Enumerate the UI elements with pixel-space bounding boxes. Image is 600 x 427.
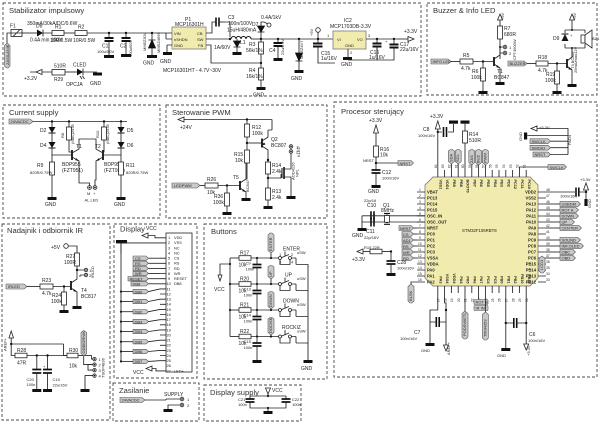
svg-text:100k: 100k [545,78,556,84]
resistor R26 [205,177,240,196]
svg-text:24VACDC: 24VACDC [11,119,29,124]
svg-text:PC0: PC0 [427,232,436,237]
svg-text:PA10: PA10 [526,220,537,225]
boost capacitor C3 [206,15,253,37]
resistor R16 [363,146,389,170]
svg-text:ROT A: ROT A [562,208,574,213]
svg-text:R5: R5 [463,53,470,59]
svg-text:8: 8 [419,230,421,234]
net label BUZZER [508,61,536,66]
svg-text:PA2: PA2 [427,280,435,285]
svg-text:PB5: PB5 [486,180,490,187]
net label DB2 [120,309,160,314]
svg-text:10k: 10k [235,158,244,164]
net label PODSW (vertical, left bottom) [408,282,417,303]
svg-text:IRLED: IRLED [90,266,95,278]
svg-text:SCL: SCL [455,153,460,162]
svg-text:PWM: PWM [482,153,487,163]
svg-text:+3.3V: +3.3V [404,29,418,35]
section box Current supply [3,105,160,218]
U1 left pin numbers [418,188,422,282]
U1 left pin stubs [417,192,425,282]
svg-text:R10: R10 [95,130,100,138]
svg-text:PODSWIETL: PODSWIETL [462,312,467,336]
svg-text:R21: R21 [240,303,249,309]
svg-text:PC6: PC6 [528,256,537,261]
svg-text:SW: SW [197,37,204,42]
svg-text:MCP16301H: MCP16301H [175,22,204,28]
transistor T1 BC847 [494,48,510,85]
svg-text:510R: 510R [469,138,481,144]
svg-text:GND: GND [421,348,430,353]
svg-text:VSS1: VSS1 [438,180,442,190]
net label DB5 [120,339,160,344]
svg-text:Display: Display [120,225,145,234]
microcontroller U1 STM32F105RBT8 [425,177,538,286]
svg-text:T1: T1 [76,144,82,150]
svg-text:T5: T5 [233,175,239,181]
diode D4 [40,133,72,155]
svg-text:USBDM: USBDM [562,202,576,207]
svg-text:3: 3 [419,200,421,204]
svg-text:350mA/30kA/DC/0.6W: 350mA/30kA/DC/0.6W [27,21,78,27]
svg-text:VI: VI [337,37,341,42]
net label RS [133,261,160,266]
svg-text:PB9: PB9 [452,180,456,187]
svg-text:PA12: PA12 [526,208,537,213]
svg-text:OSC_OUT: OSC_OUT [427,220,447,225]
svg-text:STM32F105RBT8: STM32F105RBT8 [462,228,497,233]
capacitor C19 [43,356,68,393]
svg-text:TRM4353: TRM4353 [482,319,487,337]
svg-text:56: 56 [488,164,492,168]
capacitor C6 (bottom right decoupling) [505,293,546,348]
output rail [261,38,333,40]
connector ZASILANIE (left edge input) [5,33,13,68]
svg-text:PB7: PB7 [472,180,476,187]
svg-text:PC11: PC11 [520,180,524,189]
svg-text:R9: R9 [37,163,44,169]
svg-text:KLED: KLED [296,146,301,157]
net label NRST (SWD) [533,134,572,157]
svg-text:C13: C13 [244,287,252,292]
svg-text:PB2: PB2 [513,276,517,283]
svg-text:VCC: VCC [272,388,283,394]
net label CS [133,256,160,261]
resistor R17b 510R (BOOT0) [463,124,482,170]
svg-text:CPT4600W: CPT4600W [512,39,517,60]
svg-text:LEDPWM: LEDPWM [174,183,192,188]
svg-text:R11: R11 [126,163,135,169]
resistor R19 [545,64,562,95]
power arrow AREF+ (IR receiver) [3,331,68,356]
schottky diode D3 1A/60V [206,38,242,55]
svg-text:13: 13 [418,260,422,264]
svg-text:uSW: uSW [297,302,306,307]
buttons left rail + VCC arrow [214,258,231,337]
net label ZAS (vertical top) [469,150,475,171]
svg-text:10R/0.5W: 10R/0.5W [50,38,73,44]
svg-text:DOWN: DOWN [562,214,575,219]
svg-text:SWDIO: SWDIO [532,145,546,150]
svg-text:PC4: PC4 [486,276,490,284]
svg-text:VSS2: VSS2 [526,196,537,201]
display connector pin rows [167,235,188,373]
svg-text:PB6: PB6 [479,180,483,187]
svg-text:6: 6 [419,218,421,222]
svg-text:51: 51 [522,164,526,168]
net label AD1 (PC1) [402,238,417,243]
resistor R13 [264,188,282,209]
net label 24VACDC (zasilanie) [120,398,180,403]
resistor R17 [230,251,277,269]
svg-text:SOUND: SOUND [562,238,577,243]
net label DOWN (vertical) [268,292,274,311]
diode D6 [103,133,134,155]
svg-text:21: 21 [464,298,468,302]
capacitor C11 [364,218,379,241]
FB feedback wire [206,45,261,63]
svg-text:100n: 100n [27,382,36,387]
transistor T5 BC847 [233,163,251,201]
svg-text:100n: 100n [238,402,247,407]
resistor R21 [229,303,277,321]
svg-text:100n: 100n [246,266,255,271]
svg-text:GND: GND [114,202,126,208]
svg-text:F1: F1 [10,24,16,30]
net label SCL (vertical top) [455,150,461,171]
svg-text:PB11: PB11 [527,274,531,283]
svg-text:100n: 100n [244,345,253,350]
svg-text:+3.3V: +3.3V [352,257,366,263]
net label LEDPWM [172,183,205,188]
svg-text:PC8: PC8 [528,244,537,249]
net label RD [133,266,160,271]
capacitor C10 [371,211,374,220]
svg-text:PA1: PA1 [427,274,435,279]
switch UP [277,273,308,291]
svg-text:GND: GND [143,61,155,67]
svg-text:BLSK: BLSK [408,290,413,301]
net label SWDIO [530,145,568,150]
net label ROCKIZ (vertical) [268,317,274,336]
svg-text:Nadajnik i odbiornik IR: Nadajnik i odbiornik IR [7,226,83,235]
diode D9 [553,26,585,57]
svg-text:55: 55 [495,164,499,168]
resistor R23 [40,278,71,297]
capacitor C16 [348,38,386,61]
svg-text:GND: GND [368,189,380,195]
svg-text:DB0: DB0 [135,289,144,294]
capacitor C9 [246,258,262,278]
svg-text:46: 46 [546,200,550,204]
svg-text:BC817: BC817 [81,294,97,300]
ground (buttons) [301,360,313,372]
section box Procesor sterujacy [334,102,597,377]
svg-text:IR IN: IR IN [476,306,485,311]
node +5V test point [309,28,320,41]
svg-text:VDDA: VDDA [427,262,439,267]
svg-text:DB5: DB5 [135,339,144,344]
svg-text:30: 30 [525,298,529,302]
svg-text:39: 39 [546,242,550,246]
power arrow +3.3V (VDD top) [430,114,444,170]
net label INF.OLED [546,244,584,249]
svg-text:PA9: PA9 [528,226,536,231]
svg-text:VDD2: VDD2 [525,190,537,195]
svg-text:4.7k: 4.7k [42,291,52,297]
svg-text:PC10: PC10 [527,180,531,190]
svg-text:GND: GND [160,59,172,65]
svg-text:DB8: DB8 [133,282,142,287]
svg-text:9: 9 [419,236,421,240]
svg-text:1: 1 [419,188,421,192]
svg-text:100n/16V: 100n/16V [418,133,435,138]
net label DB6 [120,349,160,354]
svg-text:10k: 10k [69,364,78,370]
inductor L1 [227,28,261,47]
svg-text:R30: R30 [69,348,78,354]
svg-text:41: 41 [546,230,550,234]
net label USBDM [546,202,581,207]
svg-text:CB: CB [197,31,203,36]
diode CLED [73,63,97,80]
svg-text:VSS4: VSS4 [445,274,449,285]
svg-text:Stabilizator impulsowy: Stabilizator impulsowy [9,6,84,15]
svg-text:C19: C19 [53,377,61,382]
svg-text:53: 53 [509,164,513,168]
svg-text:BC847: BC847 [494,75,510,81]
resistor R24 [51,287,69,314]
svg-text:OBD: OBD [562,256,571,261]
capacitor C16b [244,337,262,364]
svg-text:NRST: NRST [400,226,411,231]
svg-text:R1: R1 [55,25,62,31]
transistor T3 BC847 [567,46,578,87]
ground bar (SWD, vertical) [518,132,568,141]
svg-text:48: 48 [546,188,550,192]
svg-text:PC1: PC1 [427,238,436,243]
svg-text:C9: C9 [246,261,252,266]
resistor R3 [246,38,264,68]
svg-text:LCD1: LCD1 [539,259,544,270]
svg-text:UP: UP [562,220,568,225]
power arrow VCC (display backlight) [133,366,160,376]
svg-text:2: 2 [419,194,421,198]
diode D2 [40,122,56,135]
U1 left pin names [427,190,447,285]
svg-text:ODBIORNIK: ODBIORNIK [81,331,86,354]
svg-text:(FZT951): (FZT951) [62,168,83,174]
svg-text:VSSA: VSSA [427,256,438,261]
svg-text:100k: 100k [252,131,263,137]
display connector CON1 [166,233,192,372]
switch DOWN [277,299,308,317]
svg-text:NRST: NRST [427,226,439,231]
svg-text:100n/16V: 100n/16V [397,266,414,271]
svg-text:63: 63 [441,164,445,168]
net label ODBIORNIK (vertical) [81,331,92,365]
zener diode D1 [142,32,161,67]
ground (VDD right, vertical bar) [584,192,592,208]
svg-text:12: 12 [418,254,422,258]
svg-text:Buttons: Buttons [211,227,237,236]
net label SWCLK [530,139,568,144]
svg-text:(MAL)2535: (MAL)2535 [105,123,110,144]
transistor Q2 BC807 [262,120,287,161]
svg-text:+3.3V: +3.3V [539,125,550,130]
svg-text:VIN: VIN [174,31,181,36]
svg-text:uSW: uSW [297,250,306,255]
ground for CLED [90,73,102,88]
ground (display supply) [264,407,273,414]
svg-text:PB8: PB8 [459,180,463,187]
svg-text:GND: GND [174,43,183,48]
svg-text:CS: CS [403,232,409,237]
wire caps common [256,278,258,337]
resistor R10 [95,122,110,151]
net label ENTER (vertical) [268,233,274,258]
net label RS (PC2) [402,244,417,249]
svg-text:4.7k: 4.7k [461,66,471,72]
svg-text:VCC: VCC [133,370,144,376]
capacitor C4 [269,38,285,61]
svg-text:+24V: +24V [180,125,192,131]
svg-text:PA0: PA0 [427,268,435,273]
svg-text:GND: GND [291,76,303,82]
svg-text:33: 33 [546,278,550,282]
capacitor C14 [244,310,262,330]
svg-text:22u/16V: 22u/16V [53,383,68,388]
svg-text:100n: 100n [292,402,301,407]
U1 bottom pin names (rotated) [438,273,530,284]
svg-text:GND: GND [341,62,353,68]
net label DB8 [131,282,160,287]
net label LCD RS (vertical, right bottom) [539,256,545,273]
svg-text:100n/16V: 100n/16V [528,338,545,343]
power arrow +3.3V (analog) [352,249,370,263]
svg-text:MCP16301HT - 4.7V~30V: MCP16301HT - 4.7V~30V [163,68,222,74]
net label TRM4353 (vertical bottom) [482,293,488,340]
svg-text:Zasilanie: Zasilanie [119,386,149,395]
svg-text:PD2: PD2 [506,180,510,187]
resistor R14 [266,159,282,188]
power arrow +3.3V out [398,29,418,42]
svg-text:36: 36 [546,260,550,264]
U1 bottom pin stubs [438,286,526,293]
svg-text:MCP1703DB-3.3V: MCP1703DB-3.3V [330,24,372,30]
resistor R8 [60,122,75,151]
svg-text:PA13: PA13 [526,202,537,207]
power arrow +5V (T1) [498,12,506,26]
svg-text:VO: VO [357,37,363,42]
svg-text:11: 11 [418,248,422,252]
svg-text:Current supply: Current supply [9,108,59,117]
net label SWDIO2 (to chip) [519,165,566,170]
capacitor C12 [368,170,399,195]
U1 right pin stubs [538,192,546,282]
power arrow +3.3V (VDD right) [580,177,591,190]
fuse F1 [10,21,78,44]
svg-text:INFO LED: INFO LED [433,59,452,64]
svg-text:PC12: PC12 [513,180,517,190]
svg-text:R17: R17 [240,251,249,257]
svg-text:PC5: PC5 [493,276,497,283]
svg-text:29mA/max12V: 29mA/max12V [573,46,578,73]
svg-text:PB14: PB14 [526,268,537,273]
svg-text:+5V: +5V [309,28,314,36]
svg-text:uSW: uSW [297,276,306,281]
svg-text:GND: GND [90,81,102,87]
svg-text:D5: D5 [127,128,134,134]
connector IRLED pins 1,2 [77,266,95,278]
ground bar (BOOT0 R) [461,121,470,124]
svg-text:GND: GND [45,202,57,208]
section box Display supply [204,385,301,421]
svg-text:17: 17 [437,298,441,302]
svg-text:MM5Z30V: MM5Z30V [142,32,147,51]
ground (crystal) [352,228,367,239]
svg-text:IRLED: IRLED [8,284,20,289]
resistor R4 [246,68,266,99]
svg-text:PC15: PC15 [427,208,438,213]
net label NRST (pullup) [376,161,414,167]
net label UP [546,220,575,225]
svg-text:DB4: DB4 [135,329,144,334]
svg-text:16k/1%: 16k/1% [246,74,263,80]
net label DB7 [120,359,160,364]
resistor R5 [460,53,494,72]
svg-text:D2: D2 [40,128,47,134]
svg-text:PB0: PB0 [500,276,504,283]
svg-text:+5V: +5V [500,12,505,20]
section box Sterowanie PWM [166,105,327,218]
MOSFET Q3 AOD4126 [268,153,300,199]
svg-text:22p/16V: 22p/16V [364,235,379,240]
capacitor C15 [313,39,338,63]
resistor R11 [114,155,148,208]
svg-text:18: 18 [443,298,447,302]
diode D8 [36,24,52,37]
svg-text:510R: 510R [54,64,66,70]
capacitor C1 [97,32,114,58]
svg-text:R20: R20 [240,277,249,283]
section box Nadajnik i odbiornik IR [2,224,110,420]
svg-text:PB15: PB15 [526,262,537,267]
net label WR (PC3) [402,250,417,255]
svg-text:25: 25 [491,298,495,302]
net label UP (vertical) [268,266,274,285]
svg-text:ROT B: ROT B [476,300,488,305]
svg-text:34: 34 [546,272,550,276]
svg-text:+5V: +5V [572,12,577,20]
svg-text:R2: R2 [78,25,85,31]
svg-text:GND: GND [518,132,523,141]
svg-text:22u/6.3V: 22u/6.3V [280,39,285,55]
svg-text:+3.3V: +3.3V [526,345,531,356]
svg-text:BC807: BC807 [271,143,287,149]
svg-text:45: 45 [546,206,550,210]
svg-text:20: 20 [457,298,461,302]
svg-text:DB7: DB7 [135,359,144,364]
svg-text:BUZZER: BUZZER [510,61,526,66]
svg-text:PC7: PC7 [528,250,537,255]
svg-text:100k: 100k [213,200,224,206]
LED option branch: arrow +3.2V [24,70,52,83]
svg-text:38: 38 [546,248,550,252]
svg-text:C14: C14 [244,313,252,318]
capacitor C8 [418,124,454,138]
